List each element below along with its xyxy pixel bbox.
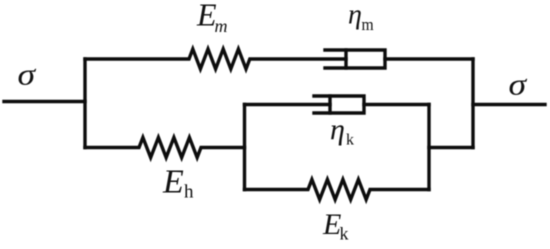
svg-text:η: η (348, 0, 362, 31)
svg-text:k: k (346, 132, 354, 149)
svg-text:m: m (215, 16, 228, 36)
svg-text:k: k (340, 224, 349, 244)
svg-text:σ: σ (509, 68, 528, 102)
svg-text:E: E (162, 164, 184, 201)
svg-text:h: h (184, 182, 194, 203)
svg-text:E: E (322, 208, 341, 241)
svg-text:m: m (362, 14, 374, 34)
svg-text:σ: σ (18, 58, 37, 92)
svg-text:η: η (330, 113, 345, 146)
